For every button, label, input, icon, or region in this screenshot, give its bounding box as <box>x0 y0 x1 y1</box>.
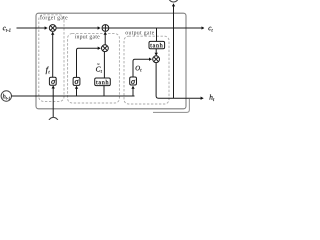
label forget gate <box>40 15 67 20</box>
label input gate <box>75 35 100 40</box>
sigma box i <box>73 77 80 85</box>
label c_{t-1} <box>3 27 11 32</box>
wire x_t up into sigma_f <box>52 86 54 118</box>
wire sigma_i up and right into multiply input <box>77 48 101 77</box>
input gate dashed box <box>68 34 120 103</box>
wire tanh up into multiply input <box>103 52 105 79</box>
forget gate dashed box <box>39 15 64 102</box>
add node <box>102 25 109 32</box>
wire stub to sigma_o <box>132 86 134 96</box>
h_{t-1} circle <box>1 91 11 101</box>
input x circle (cut off at bottom) <box>49 117 59 127</box>
tanh box output <box>149 41 165 48</box>
wire h bus <box>12 95 135 97</box>
wire branch h up to top circle <box>173 4 175 98</box>
outer cell box shadow <box>153 99 189 112</box>
wire sigma_f to multiply <box>52 32 54 77</box>
label C~_t <box>96 64 102 73</box>
wire sigma_o up right into multiply output <box>133 59 152 77</box>
wire branch c to tanh output <box>156 28 158 41</box>
label output gate <box>126 31 155 36</box>
multiply node output <box>153 56 160 63</box>
output gate dashed box <box>124 36 169 104</box>
sigma box o <box>130 77 137 85</box>
label O_t <box>136 66 142 72</box>
wire stub to sigma_i <box>76 86 78 96</box>
tanh box candidate <box>95 78 111 86</box>
wire tanh down into multiply output <box>155 49 157 56</box>
wire stub to tanh candidate <box>103 86 105 96</box>
wire c line <box>17 27 48 29</box>
multiply node input <box>102 45 109 52</box>
top output circle (cut off) <box>169 0 179 2</box>
label c_t <box>208 27 212 32</box>
outer cell box <box>36 13 186 109</box>
multiply node forget <box>49 25 56 32</box>
sigma box f <box>49 77 56 85</box>
wire multiply input up into add <box>104 32 106 45</box>
wire multiply output down and right to h_t <box>156 63 203 99</box>
label h_t <box>209 94 214 101</box>
label f_t <box>46 67 50 75</box>
